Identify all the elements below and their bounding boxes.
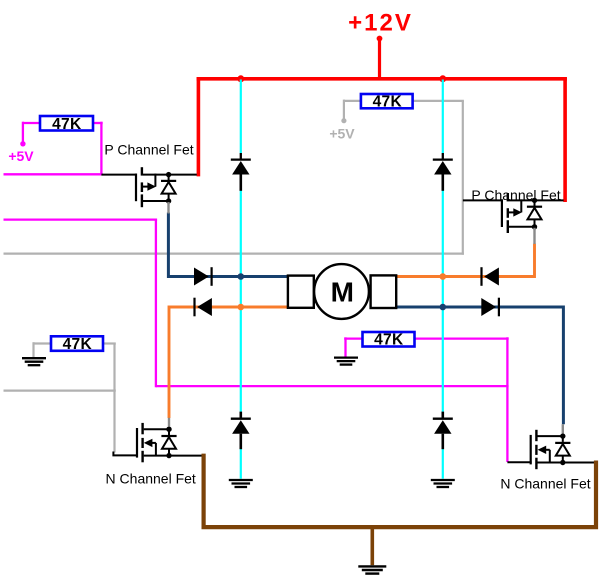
transistor Q2 P-channel FET (top right) — [463, 193, 564, 233]
transistor Q1 P-channel FET (top left) — [101, 167, 196, 207]
node Q4 source dot — [560, 460, 565, 465]
diode lower-right clamp (from ground) — [433, 412, 453, 450]
wire gray stub Q4 drain — [562, 424, 564, 433]
node Q1 source dot — [166, 198, 171, 203]
svg-text:M: M — [331, 277, 354, 308]
wire gray stub Q1 source — [167, 202, 169, 214]
svg-text:N Channel Fet: N Channel Fet — [106, 470, 196, 486]
ground GND3 (left 47K) — [22, 358, 46, 365]
node Q2 source dot — [532, 224, 537, 229]
wire cyan left clamp column — [240, 80, 242, 479]
transistor Q3 N-channel FET (bottom left) — [113, 423, 202, 462]
wire gray net (left N-FET gate): horizontal from left edge — [4, 342, 116, 452]
node navy junction on right cyan — [440, 304, 447, 311]
svg-text:P Channel Fet: P Channel Fet — [471, 187, 560, 203]
svg-text:47K: 47K — [63, 336, 93, 353]
node Q1 drain dot — [166, 172, 171, 177]
diode lower-left clamp (from ground) — [231, 412, 251, 450]
node Q4 drain dot — [560, 433, 565, 438]
motor M body circle — [314, 264, 369, 319]
wire magenta net (right N-FET gate) — [4, 220, 509, 462]
node orange junction on left cyan — [238, 304, 245, 311]
diode orange left (points left) — [195, 298, 212, 317]
node +12V terminal dot — [377, 36, 383, 42]
wire gray stub Q2 source — [533, 228, 535, 244]
node Q3 source dot — [166, 453, 171, 458]
node red junction left — [237, 75, 244, 82]
wire orange right (P-FET source to motor terminal C) — [396, 244, 535, 277]
ground GND1 (left clamp column) — [229, 480, 253, 487]
svg-text:47K: 47K — [52, 116, 82, 133]
node red junction right — [439, 75, 446, 82]
wire navy left (P-FET source to motor terminal A) — [168, 213, 288, 277]
wire magenta +5V net (left P-FET gate) — [4, 122, 103, 176]
resistor R4 47K (magenta pull-down, middle) — [363, 332, 415, 349]
node orange junction on right cyan — [440, 273, 447, 280]
diode navy left (points right) — [194, 267, 212, 286]
wire orange left (motor terminal B to left N-FET drain) — [169, 307, 288, 418]
svg-text:P Channel Fet: P Channel Fet — [104, 142, 193, 158]
svg-text:47K: 47K — [374, 332, 404, 349]
resistor R3 47K (gray pull-down, bottom left) — [51, 336, 103, 353]
svg-text:+5V: +5V — [8, 148, 34, 164]
diode upper-right clamp (to +12V) — [433, 153, 453, 191]
diode orange right (points left) — [482, 267, 499, 286]
node gray +5V terminal dot — [341, 118, 346, 123]
svg-text:N Channel Fet: N Channel Fet — [500, 475, 590, 491]
svg-text:47K: 47K — [373, 94, 403, 111]
resistor R2 47K (gray pull-up, top right) — [361, 94, 413, 111]
wire gray stub Q3 drain — [168, 418, 170, 427]
motor M terminal right (brush rectangle) — [371, 275, 397, 308]
wire navy right (motor terminal D to right N-FET drain) — [396, 307, 563, 424]
motor M terminal left (brush rectangle) — [288, 276, 314, 308]
node magenta +5V terminal dot — [20, 141, 25, 146]
svg-text:+5V: +5V — [329, 126, 355, 142]
wire red +12V bus — [197, 39, 567, 203]
resistor R1 47K (magenta pull-up, top left) — [40, 116, 93, 133]
node Q2 drain dot — [532, 198, 537, 203]
ground GND2 (right clamp column) — [431, 480, 455, 487]
ground GND4 (middle 47K) — [334, 358, 358, 365]
diode navy right (points right) — [481, 298, 499, 317]
ground GND5 (bottom center) — [358, 566, 386, 573]
wire brown ground bus — [204, 454, 596, 566]
wire cyan right clamp column — [442, 80, 444, 479]
diode upper-left clamp (to +12V) — [231, 153, 251, 191]
wire gray +5V pullup net (right P-FET gate): horizontal to left edge — [4, 100, 464, 255]
svg-text:+12V: +12V — [348, 10, 413, 37]
node Q3 drain dot — [166, 427, 171, 432]
transistor Q4 N-channel FET (bottom right) — [507, 430, 594, 469]
node navy junction on left cyan — [238, 273, 245, 280]
